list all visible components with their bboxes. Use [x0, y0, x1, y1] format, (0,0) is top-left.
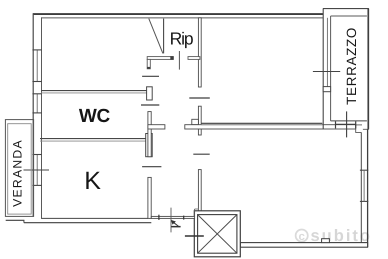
rip bottom wall left bar: [147, 57, 173, 60]
left exterior wall: [32, 13, 34, 216]
entrance arrow shaft: [173, 222, 178, 226]
svg-text:Rip: Rip: [170, 29, 193, 49]
WC/K divider wall: [40, 138, 146, 140]
svg-text:WC: WC: [79, 106, 111, 127]
bedroom door tick: [142, 75, 159, 77]
kitchen bottom step: [23, 220, 25, 222]
left wall window mid-lines: [36, 50, 38, 82]
right wall window mid-line: [326, 18, 328, 87]
hall/bottom-room top wall: [185, 125, 356, 129]
corridor right wall notch: [192, 119, 199, 124]
rip closet divider: [163, 19, 165, 54]
elevator inner box: [198, 215, 237, 254]
bottom room door tick: [193, 153, 209, 155]
right wall of living room: [322, 9, 324, 130]
terrazzo right wall: [367, 9, 369, 130]
rip door tick: [178, 51, 180, 70]
landing door tick: [185, 235, 204, 237]
elevator X diagonal 2: [198, 215, 237, 254]
corridor right wall upper segment: [198, 18, 201, 87]
svg-text:c: c: [298, 231, 305, 243]
veranda step ledge: [6, 219, 25, 221]
top exterior wall: [33, 13, 323, 15]
bottom room right wall: [360, 132, 362, 242]
terrazzo door line: [336, 123, 356, 125]
kitchen door tick: [142, 166, 161, 168]
svg-text:TERRAZZO: TERRAZZO: [344, 27, 359, 105]
step right of terrazzo door: [356, 129, 362, 133]
veranda outer box: [5, 120, 33, 217]
entrance door line: [170, 208, 172, 233]
right wall window ticks: [360, 169, 368, 171]
svg-text:VERANDA: VERANDA: [11, 139, 25, 207]
svg-text:K: K: [84, 167, 101, 195]
rip closet door diagonal: [149, 19, 163, 54]
wc door tick: [141, 104, 159, 106]
terrazzo door tall tick: [346, 111, 348, 137]
entrance arrow base bar: [171, 226, 180, 228]
rip left jamb: [147, 59, 150, 68]
living room bottom wall: [201, 122, 322, 124]
bedroom/WC divider wall: [41, 90, 146, 92]
left wall window ticks: [32, 49, 41, 51]
corridor left wall seg top jamb: [148, 112, 151, 157]
entrance bottom wall: [151, 216, 194, 218]
corridor right wall lower segment: [198, 170, 201, 212]
kitchen bottom outer line: [24, 222, 151, 224]
hall doorway stub: [148, 125, 165, 129]
step between entrance and elevator: [194, 209, 196, 216]
WC/K divider end cap: [146, 134, 153, 157]
elevator X diagonal 1: [198, 215, 237, 254]
kitchen bottom inner line: [41, 217, 148, 219]
terrazzo door ticks: [335, 121, 337, 128]
terrazzo top wall: [323, 8, 369, 10]
entrance jamb ticks: [158, 215, 160, 220]
right wall sill crossing: [313, 71, 340, 73]
veranda door crossing line: [24, 169, 50, 171]
watermark subito: [296, 227, 372, 245]
corridor left wall lower segment: [148, 177, 151, 218]
right wall window jamb box: [323, 87, 330, 92]
veranda inner box: [8, 124, 32, 214]
corridor right wall mid segment: [198, 106, 201, 135]
terrazzo bottom-right connector: [363, 128, 369, 130]
bottom wall notch: [322, 239, 330, 243]
terrazzo bottom inner line: [331, 120, 367, 122]
rip bottom wall left bar cap: [170, 56, 173, 60]
rip bottom wall right bar: [188, 57, 200, 60]
bottom room bottom wall: [240, 243, 367, 248]
right wall window mid-line: [363, 170, 365, 201]
elevator outer box: [194, 211, 240, 257]
entrance arrow head: [171, 220, 176, 225]
top wall extension to right wall: [356, 124, 362, 126]
living room door tick: [189, 97, 210, 99]
bedroom/WC divider end cap: [147, 87, 153, 100]
